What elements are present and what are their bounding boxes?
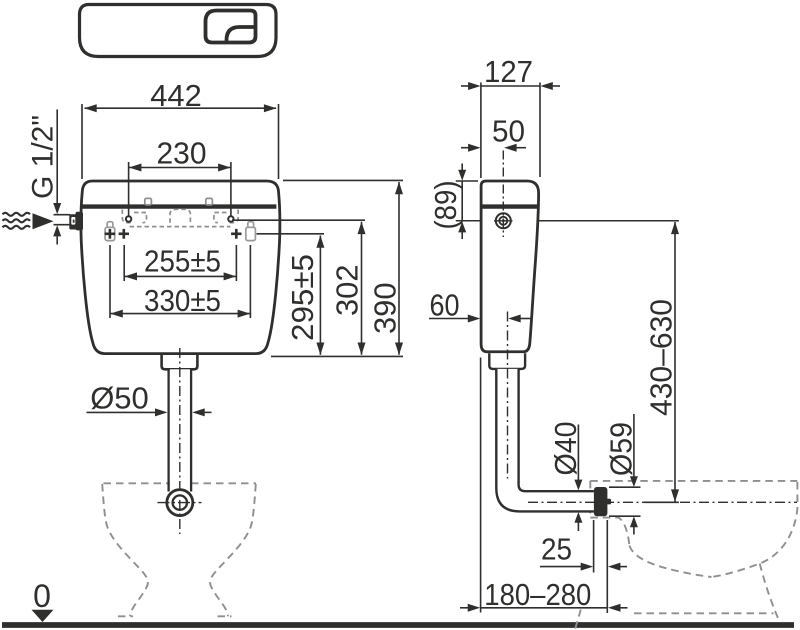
dimension 255±5 <box>124 245 236 281</box>
extension line for 302 <box>232 219 365 221</box>
front view: cistern tank body <box>81 181 280 354</box>
dimension 180–280 <box>480 358 482 613</box>
floor line <box>2 622 794 628</box>
dimension 295±5 (vertical) <box>319 236 321 355</box>
svg-text:230: 230 <box>157 135 207 170</box>
svg-text:255±5: 255±5 <box>144 243 221 278</box>
side view: lid joint thick line <box>480 204 537 208</box>
water squiggles <box>3 213 31 229</box>
left bracket anchor cross <box>105 229 115 239</box>
rubber gasket connector (black) <box>594 487 608 516</box>
svg-text:Ø59: Ø59 <box>604 422 639 476</box>
svg-text:(89): (89) <box>428 181 463 230</box>
dimension Ø59 <box>633 414 635 477</box>
horizontal pipe centerline <box>528 501 797 503</box>
bottom reference extension line (front) <box>271 355 403 357</box>
dimension 302 (vertical) <box>361 222 363 355</box>
rod eyes at 230 extension line bottoms <box>126 216 131 221</box>
water inlet fitting <box>54 214 71 216</box>
lid outline <box>80 5 277 57</box>
right plain cross <box>231 229 241 239</box>
svg-text:442: 442 <box>150 78 202 113</box>
flush button divider (small flush segment) <box>227 27 256 42</box>
lid clips (gray tabs) <box>145 198 213 205</box>
toilet bowl dashed outline (front view) <box>102 483 256 616</box>
dimension 390 (vertical) <box>398 182 400 355</box>
vertical pipe centerline <box>507 312 509 479</box>
dimension 127 <box>461 83 560 179</box>
svg-text:25: 25 <box>541 532 572 567</box>
svg-text:127: 127 <box>484 54 533 89</box>
water supply arrow <box>33 213 54 229</box>
toilet bowl dashed outline (side view) <box>575 481 797 629</box>
flush mechanism dashed internals (gray) <box>122 209 238 226</box>
svg-text:G 1/2": G 1/2" <box>27 115 60 199</box>
side inlet circle <box>496 213 511 228</box>
side view: cistern tank body <box>481 181 538 352</box>
side view reference line at inlet height <box>456 220 679 222</box>
svg-text:302: 302 <box>330 265 365 317</box>
svg-text:Ø50: Ø50 <box>90 381 149 416</box>
svg-text:Ø40: Ø40 <box>548 422 583 476</box>
dimension (89) <box>461 164 463 171</box>
svg-text:330±5: 330±5 <box>144 283 221 318</box>
dimension 50 <box>461 147 469 149</box>
svg-text:0: 0 <box>33 578 51 614</box>
dimension Ø40 <box>577 425 579 481</box>
flush button outline <box>206 11 256 43</box>
dimension 230 <box>129 162 231 216</box>
dimension 442 <box>82 104 279 179</box>
front view: cistern lid joint thick line <box>81 204 276 208</box>
svg-text:390: 390 <box>368 283 403 335</box>
dimension 430–630 <box>674 222 676 502</box>
top reference extension line for 390 <box>283 179 403 181</box>
svg-text:60: 60 <box>430 287 460 322</box>
front pipe centerline <box>179 348 181 534</box>
left plain cross <box>119 229 129 239</box>
side inlet centerline <box>502 151 504 238</box>
front flush pipe collar <box>162 355 198 369</box>
dimension 25 <box>593 520 595 573</box>
mounting bracket icon left (padlock) <box>105 222 115 241</box>
mounting bracket icon right (padlock) <box>246 222 256 241</box>
pipe outlet circle <box>167 490 193 516</box>
svg-text:295±5: 295±5 <box>285 254 320 341</box>
side flush pipe with elbow (white fill mask) <box>496 369 594 512</box>
side collar <box>489 353 525 369</box>
dimension 60 <box>429 318 468 320</box>
svg-text:180–280: 180–280 <box>484 577 591 612</box>
dimension Ø50 <box>87 411 157 413</box>
svg-text:430–630: 430–630 <box>644 299 679 416</box>
G 1/2" label leader <box>56 110 58 204</box>
front flush pipe <box>170 369 190 495</box>
svg-text:50: 50 <box>492 114 525 149</box>
extension line for 295±5 <box>257 233 325 235</box>
dimension 330±5 <box>110 245 250 318</box>
